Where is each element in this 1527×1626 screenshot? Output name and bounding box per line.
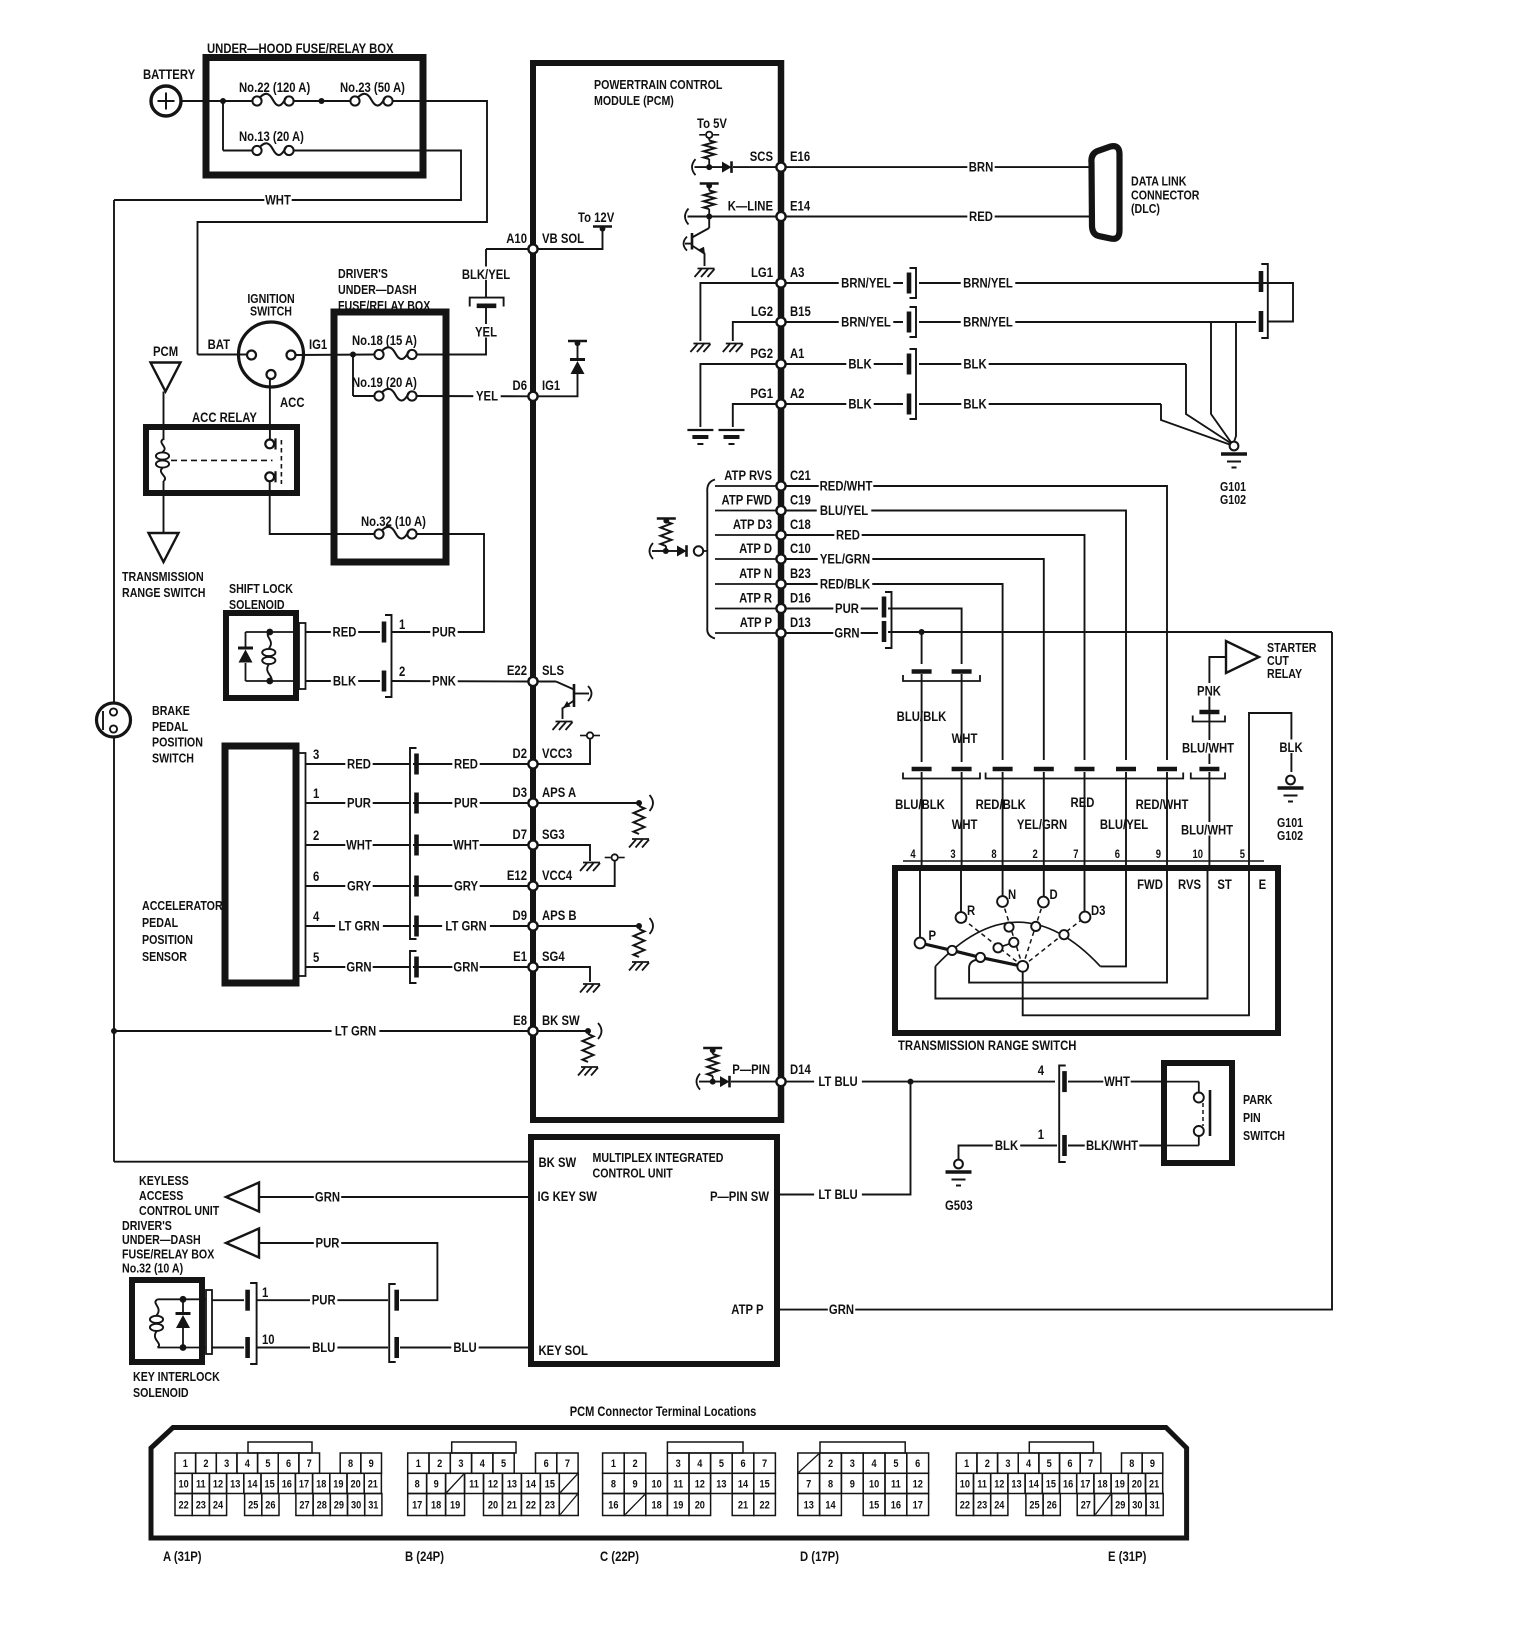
svg-text:16: 16 [608, 1500, 618, 1512]
svg-text:UNDER—DASH: UNDER—DASH [338, 282, 417, 297]
svg-text:RED: RED [969, 209, 993, 224]
connector row2 bank [912, 767, 932, 772]
svg-text:E1: E1 [513, 949, 527, 964]
svg-text:ST: ST [1217, 877, 1232, 892]
svg-text:2: 2 [632, 1458, 637, 1470]
svg-text:SG4: SG4 [542, 949, 565, 964]
svg-text:6: 6 [286, 1458, 291, 1470]
svg-text:RED/BLK: RED/BLK [976, 797, 1026, 812]
svg-text:ATP D3: ATP D3 [733, 517, 772, 532]
svg-text:PEDAL: PEDAL [152, 719, 188, 734]
svg-text:16: 16 [1063, 1479, 1073, 1491]
svg-text:6: 6 [1115, 848, 1120, 861]
svg-text:ATP P: ATP P [740, 615, 772, 630]
wire GRN connector to PCM [413, 966, 529, 968]
svg-text:LT BLU: LT BLU [818, 1074, 857, 1089]
PG2 drop to ground [1186, 364, 1232, 444]
wire RED/WHT ATP RVS [785, 486, 1167, 760]
svg-text:BRN/YEL: BRN/YEL [841, 275, 891, 290]
ATP row ATP D3 [715, 534, 777, 536]
node junction battery feed [220, 98, 226, 104]
svg-text:5: 5 [501, 1458, 506, 1470]
svg-text:UNDER—DASH: UNDER—DASH [122, 1232, 201, 1247]
svg-text:6: 6 [544, 1458, 549, 1470]
svg-text:23: 23 [545, 1500, 555, 1512]
svg-text:VCC4: VCC4 [542, 868, 572, 883]
pin C21 ATP RVS [776, 481, 785, 490]
svg-text:UNDER—HOOD FUSE/RELAY BOX: UNDER—HOOD FUSE/RELAY BOX [207, 41, 394, 56]
svg-text:18: 18 [431, 1500, 441, 1512]
svg-text:BRN: BRN [969, 159, 994, 174]
TRS detent circles [948, 946, 957, 955]
svg-text:17: 17 [412, 1500, 422, 1512]
svg-text:E: E [1259, 877, 1267, 892]
svg-text:1: 1 [611, 1458, 616, 1470]
svg-text:BK SW: BK SW [542, 1013, 580, 1028]
K-LINE pull-up [700, 182, 719, 185]
svg-text:LG1: LG1 [751, 265, 773, 280]
wire VB SOL to 12V [537, 229, 603, 249]
VCC3 to 5V terminal [537, 739, 590, 764]
svg-text:A3: A3 [790, 265, 804, 280]
connector in BLK/YEL wire [470, 298, 504, 307]
svg-text:SLS: SLS [542, 663, 564, 678]
svg-text:PUR: PUR [432, 624, 456, 639]
svg-text:PUR: PUR [312, 1292, 336, 1307]
svg-text:9: 9 [434, 1479, 439, 1491]
svg-text:BLU/YEL: BLU/YEL [1100, 817, 1149, 832]
svg-text:IG KEY SW: IG KEY SW [538, 1189, 598, 1204]
svg-text:RANGE SWITCH: RANGE SWITCH [122, 585, 205, 600]
wire PUR ATP R [785, 608, 878, 610]
key interlock connector shell [206, 1290, 212, 1354]
TRS dashed selector lines [961, 918, 1023, 967]
svg-text:12: 12 [994, 1479, 1004, 1491]
pin A2 PG1 [776, 399, 785, 408]
svg-text:ATP RVS: ATP RVS [724, 468, 772, 483]
APP inline connector GRN [410, 951, 417, 983]
wire relay contact to fuse32 [270, 481, 375, 534]
svg-text:1: 1 [416, 1458, 421, 1470]
svg-text:RED: RED [347, 756, 371, 771]
svg-text:BLU: BLU [453, 1340, 476, 1355]
LG1 inline connector [907, 273, 912, 294]
svg-text:17: 17 [1080, 1479, 1090, 1491]
ATP row ATP D [715, 558, 777, 560]
svg-text:7: 7 [565, 1458, 570, 1470]
svg-text:26: 26 [265, 1500, 275, 1512]
pin B15 LG2 [776, 317, 785, 326]
svg-text:ATP R: ATP R [739, 590, 772, 605]
key interlock inline connector A [212, 1299, 244, 1301]
svg-text:GRY: GRY [347, 878, 372, 893]
wire BLU/BLK col4 from GRN junction [921, 632, 923, 664]
svg-text:G503: G503 [945, 1198, 973, 1213]
svg-text:To 12V: To 12V [578, 210, 615, 225]
solenoid connector shell [299, 623, 306, 689]
svg-text:ATP D: ATP D [739, 541, 772, 556]
pin D16 ATP R [776, 604, 785, 613]
svg-text:DRIVER'S: DRIVER'S [338, 266, 388, 281]
wire WHT APP pin 2 [306, 844, 410, 846]
svg-text:POSITION: POSITION [142, 932, 193, 947]
data link connector (DLC) [1091, 146, 1119, 239]
svg-text:WHT: WHT [1104, 1074, 1130, 1089]
svg-text:B15: B15 [790, 304, 811, 319]
TRS ST node wire [935, 868, 1207, 999]
svg-text:17: 17 [913, 1500, 923, 1512]
ground G101 G102 (right) [1286, 776, 1295, 785]
svg-text:YEL/GRN: YEL/GRN [820, 551, 870, 566]
svg-text:IG1: IG1 [542, 378, 560, 393]
wire BLU to multiplex KEY SOL [400, 1347, 528, 1349]
svg-text:18: 18 [1097, 1479, 1107, 1491]
svg-text:21: 21 [1149, 1479, 1159, 1491]
svg-text:22: 22 [178, 1500, 188, 1512]
svg-text:3: 3 [676, 1458, 681, 1470]
park pin inline connector [1059, 1066, 1066, 1163]
svg-text:PCM Connector Terminal Locatio: PCM Connector Terminal Locations [570, 1404, 757, 1419]
svg-text:30: 30 [351, 1500, 361, 1512]
svg-text:SHIFT LOCK: SHIFT LOCK [229, 581, 293, 596]
svg-text:ACCELERATOR: ACCELERATOR [142, 898, 223, 913]
wire WHT to park pin switch [1068, 1081, 1164, 1083]
wire LT BLU from D14 [785, 1081, 1055, 1083]
transmission range switch off-page triangle [149, 533, 179, 562]
labels under row2 [893, 796, 948, 810]
wire PNK starter cut relay [1209, 657, 1226, 764]
svg-text:20: 20 [488, 1500, 498, 1512]
svg-text:5: 5 [1240, 848, 1245, 861]
svg-text:P—PIN: P—PIN [732, 1062, 770, 1077]
svg-text:E8: E8 [513, 1013, 527, 1028]
svg-text:BLK/WHT: BLK/WHT [1086, 1138, 1138, 1153]
svg-text:SG3: SG3 [542, 827, 565, 842]
wire BLK col5 to ground [1249, 713, 1291, 865]
svg-text:K—LINE: K—LINE [728, 198, 773, 213]
svg-text:11: 11 [673, 1479, 683, 1491]
svg-text:G102: G102 [1220, 492, 1246, 507]
ground G503 [954, 1160, 963, 1169]
diode feed at IG1 [537, 372, 578, 396]
ATP row ATP FWD [715, 510, 777, 512]
driver's under-dash fuse/relay box [334, 312, 446, 562]
ATP row ATP N [715, 583, 777, 585]
svg-text:GRN: GRN [834, 625, 859, 640]
svg-text:20: 20 [695, 1500, 705, 1512]
svg-text:10: 10 [960, 1479, 970, 1491]
wire left vertical main (to BK SW) [113, 200, 115, 704]
pin E22 SLS [528, 677, 537, 686]
svg-text:10: 10 [262, 1332, 275, 1347]
ATP row ATP RVS [715, 485, 777, 487]
APP sensor connector shell [299, 753, 306, 976]
connector C (22P) [667, 1442, 743, 1453]
TRS FWD node wire [1100, 868, 1126, 966]
svg-text:13: 13 [507, 1479, 517, 1491]
LG2 inline connector [907, 312, 912, 333]
svg-text:GRN: GRN [315, 1189, 340, 1204]
wire PUR APP pin 1 [306, 802, 410, 804]
pin C18 ATP D3 [776, 530, 785, 539]
wire YEL fuse19 to D6 [417, 395, 529, 397]
svg-text:IG1: IG1 [309, 337, 327, 352]
svg-text:2: 2 [399, 664, 405, 679]
wire PUR triangle to connector [259, 1243, 437, 1300]
svg-text:BK SW: BK SW [539, 1155, 577, 1170]
shift lock solenoid [226, 613, 296, 698]
svg-text:YEL: YEL [476, 388, 498, 403]
svg-text:15: 15 [759, 1479, 769, 1491]
svg-text:6: 6 [915, 1458, 920, 1470]
svg-text:BLK: BLK [333, 673, 356, 688]
svg-text:1: 1 [964, 1458, 969, 1470]
svg-text:MULTIPLEX INTEGRATED: MULTIPLEX INTEGRATED [593, 1150, 724, 1165]
driver's fuse box No.32 triangle [226, 1229, 259, 1258]
connector B (24P) [452, 1442, 516, 1453]
svg-text:PUR: PUR [454, 795, 478, 810]
svg-text:3: 3 [458, 1458, 463, 1470]
pin D2 VCC3 [528, 759, 537, 768]
svg-text:17: 17 [299, 1479, 309, 1491]
svg-text:GRN: GRN [453, 959, 478, 974]
svg-text:YEL/GRN: YEL/GRN [1017, 817, 1067, 832]
svg-text:9: 9 [632, 1479, 637, 1491]
svg-text:2: 2 [1033, 848, 1038, 861]
svg-text:14: 14 [526, 1479, 536, 1491]
key interlock rails [158, 1298, 207, 1300]
svg-text:21: 21 [738, 1500, 748, 1512]
shift lock inline connector [382, 622, 387, 643]
transmission range switch box [903, 860, 1264, 862]
svg-text:BAT: BAT [208, 337, 231, 352]
svg-text:11: 11 [196, 1479, 206, 1491]
svg-text:BLU: BLU [312, 1340, 335, 1355]
svg-text:GRY: GRY [454, 878, 479, 893]
svg-text:B (24P): B (24P) [405, 1549, 444, 1564]
svg-text:14: 14 [247, 1479, 257, 1491]
svg-text:FWD: FWD [1137, 877, 1163, 892]
svg-text:4: 4 [910, 848, 915, 861]
svg-text:10: 10 [869, 1479, 879, 1491]
svg-text:LT BLU: LT BLU [818, 1187, 857, 1202]
pin C10 ATP D [776, 554, 785, 563]
TRS position circles [915, 938, 926, 949]
col10 connector row2 [1199, 767, 1219, 772]
wire RED ATP D3 [785, 535, 1085, 760]
keyless access control unit triangle [226, 1183, 259, 1212]
wire WHT fuse13 to left bus [114, 151, 461, 201]
svg-text:PUR: PUR [835, 601, 859, 616]
brake pedal position switch [97, 703, 131, 737]
svg-text:6: 6 [313, 869, 319, 884]
svg-text:BLK: BLK [1279, 740, 1302, 755]
svg-text:1: 1 [399, 617, 405, 632]
svg-text:31: 31 [368, 1500, 378, 1512]
ignition switch [239, 322, 304, 387]
svg-text:BLU/WHT: BLU/WHT [1181, 822, 1233, 837]
svg-text:No.13 (20 A): No.13 (20 A) [239, 129, 304, 144]
SG4 ground [537, 967, 590, 982]
svg-text:20: 20 [1132, 1479, 1142, 1491]
LG1 internal ground [700, 283, 777, 341]
wire BLK PG1 [785, 403, 903, 405]
TRS E node wire [1023, 868, 1249, 1015]
svg-text:RED: RED [1071, 795, 1095, 810]
svg-text:15: 15 [264, 1479, 274, 1491]
svg-text:3: 3 [1005, 1458, 1010, 1470]
svg-text:28: 28 [317, 1500, 327, 1512]
svg-text:APS B: APS B [542, 908, 577, 923]
wire RED connector to PCM [413, 763, 529, 765]
svg-text:BRAKE: BRAKE [152, 703, 190, 718]
svg-text:8: 8 [611, 1479, 616, 1491]
svg-text:A10: A10 [506, 231, 527, 246]
svg-text:PUR: PUR [316, 1235, 340, 1250]
svg-text:KEYLESS: KEYLESS [139, 1173, 189, 1188]
svg-text:RED: RED [333, 624, 357, 639]
svg-text:ACCESS: ACCESS [139, 1188, 183, 1203]
svg-text:2: 2 [203, 1458, 208, 1470]
pin D9 APS B [528, 921, 537, 930]
svg-text:18: 18 [316, 1479, 326, 1491]
svg-text:10: 10 [651, 1479, 661, 1491]
svg-text:D6: D6 [513, 378, 527, 393]
svg-text:9: 9 [1156, 848, 1161, 861]
svg-text:4: 4 [480, 1458, 485, 1470]
svg-text:19: 19 [673, 1500, 683, 1512]
wire BRN/YEL LG1 [785, 282, 903, 284]
svg-text:3: 3 [950, 848, 955, 861]
connector D (17P) [820, 1442, 905, 1453]
pin E14 K-LINE [776, 212, 785, 221]
svg-text:No.23 (50 A): No.23 (50 A) [340, 80, 405, 95]
svg-text:ACC: ACC [280, 395, 305, 410]
svg-text:5: 5 [313, 950, 319, 965]
svg-text:E12: E12 [507, 868, 527, 883]
PG1 drop to ground [1161, 404, 1231, 445]
svg-text:D3: D3 [513, 785, 527, 800]
svg-text:D (17P): D (17P) [800, 1549, 839, 1564]
wire BLU row [257, 1347, 388, 1349]
svg-text:BRN/YEL: BRN/YEL [963, 314, 1013, 329]
solenoid coil [268, 632, 271, 649]
wire YEL/BLK-YEL fuse18 to A10 [417, 308, 487, 355]
svg-text:C21: C21 [790, 468, 811, 483]
svg-text:SOLENOID: SOLENOID [133, 1385, 189, 1400]
svg-text:PIN: PIN [1243, 1110, 1261, 1125]
pin D7 SG3 [528, 840, 537, 849]
pin D13 ATP P [776, 628, 785, 637]
svg-text:27: 27 [1081, 1500, 1091, 1512]
svg-text:14: 14 [825, 1500, 835, 1512]
wire relay coil to TRS triangle [163, 481, 165, 533]
svg-text:27: 27 [299, 1500, 309, 1512]
wire BRN/YEL LG2 [785, 321, 903, 323]
svg-text:2: 2 [828, 1458, 833, 1470]
svg-text:A (31P): A (31P) [163, 1549, 202, 1564]
svg-text:YEL: YEL [475, 324, 497, 339]
wire fuse23 output to ignition BAT [198, 101, 488, 351]
pin C19 ATP FWD [776, 506, 785, 515]
svg-text:6: 6 [740, 1458, 745, 1470]
ATP test terminal [694, 546, 703, 555]
wire WHT after connector col3 [888, 609, 962, 665]
svg-text:C18: C18 [790, 517, 811, 532]
svg-text:PG1: PG1 [750, 386, 773, 401]
svg-text:E22: E22 [507, 663, 527, 678]
svg-text:No.18 (15 A): No.18 (15 A) [352, 333, 417, 348]
svg-text:11: 11 [469, 1479, 479, 1491]
svg-text:13: 13 [1011, 1479, 1021, 1491]
wire GRY connector to PCM [413, 885, 529, 887]
svg-text:1: 1 [313, 786, 319, 801]
svg-text:22: 22 [759, 1500, 769, 1512]
svg-text:D2: D2 [513, 746, 527, 761]
svg-text:PUR: PUR [347, 795, 371, 810]
svg-text:LT GRN: LT GRN [335, 1023, 376, 1038]
svg-text:BRN/YEL: BRN/YEL [841, 314, 891, 329]
svg-text:SENSOR: SENSOR [142, 949, 187, 964]
svg-text:POSITION: POSITION [152, 735, 203, 750]
svg-text:KEY SOL: KEY SOL [539, 1343, 589, 1358]
svg-text:SWITCH: SWITCH [152, 750, 194, 765]
svg-text:MODULE (PCM): MODULE (PCM) [594, 93, 674, 108]
svg-text:ATP N: ATP N [739, 566, 772, 581]
pin B23 ATP N [776, 579, 785, 588]
svg-text:TRANSMISSION: TRANSMISSION [122, 569, 204, 584]
svg-text:23: 23 [977, 1500, 987, 1512]
svg-text:A2: A2 [790, 386, 804, 401]
relay coil [161, 439, 164, 452]
svg-text:P: P [929, 928, 937, 943]
pin D3 APS A [528, 798, 537, 807]
svg-text:SCS: SCS [750, 149, 773, 164]
svg-text:ATP FWD: ATP FWD [722, 492, 772, 507]
key interlock solenoid [132, 1280, 202, 1362]
svg-text:7: 7 [806, 1479, 811, 1491]
svg-text:FUSE/RELAY BOX: FUSE/RELAY BOX [338, 298, 430, 313]
APP inline connector 5-pin [410, 748, 417, 939]
ACC relay [146, 427, 297, 493]
svg-text:WHT: WHT [952, 817, 978, 832]
svg-text:22: 22 [960, 1500, 970, 1512]
svg-text:WHT: WHT [346, 837, 372, 852]
APS B pull resistor [537, 925, 639, 927]
svg-text:14: 14 [738, 1479, 748, 1491]
svg-text:CONTROL UNIT: CONTROL UNIT [139, 1203, 220, 1218]
wire BLK/WHT [1068, 1145, 1164, 1147]
svg-text:8: 8 [1129, 1458, 1134, 1470]
svg-text:(DLC): (DLC) [1131, 201, 1160, 216]
svg-text:4: 4 [697, 1458, 702, 1470]
ATP test diode [677, 546, 687, 557]
wires row2 to TRS [921, 772, 923, 865]
connector A (31P) [248, 1442, 312, 1453]
svg-text:19: 19 [450, 1500, 460, 1512]
svg-text:29: 29 [1115, 1500, 1125, 1512]
PG2 internal ground [700, 364, 777, 427]
wire YEL/GRN ATP D [785, 559, 1044, 760]
svg-text:8: 8 [828, 1479, 833, 1491]
svg-text:2: 2 [313, 828, 319, 843]
svg-text:4: 4 [1038, 1063, 1044, 1078]
svg-text:BATTERY: BATTERY [143, 67, 196, 82]
svg-text:11: 11 [977, 1479, 987, 1491]
svg-text:22: 22 [526, 1500, 536, 1512]
svg-text:15: 15 [1046, 1479, 1056, 1491]
svg-text:SOLENOID: SOLENOID [229, 597, 285, 612]
